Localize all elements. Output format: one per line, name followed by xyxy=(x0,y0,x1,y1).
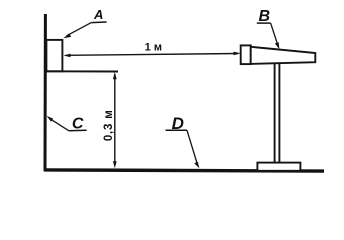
dimension arrow 0.3 m xyxy=(113,72,117,168)
floor (horizontal line D) xyxy=(44,170,324,171)
svg-text:1 м: 1 м xyxy=(145,42,162,54)
label B underline xyxy=(257,22,271,24)
label D leader arrow xyxy=(187,130,199,168)
stand column left line xyxy=(274,63,276,162)
shelf line at bottom of block A xyxy=(46,70,118,72)
stand column right line xyxy=(278,63,280,162)
label B leader arrow xyxy=(271,23,280,49)
label A underline xyxy=(91,21,106,24)
svg-text:A: A xyxy=(93,7,103,22)
dimension arrow 1 m xyxy=(63,52,240,58)
label D underline xyxy=(166,129,188,131)
label C leader arrow xyxy=(47,116,69,131)
bar B end cap xyxy=(241,45,251,64)
block A on wall xyxy=(46,40,62,71)
label A leader arrow xyxy=(63,23,91,39)
svg-text:0,3 м: 0,3 м xyxy=(103,109,115,141)
stand base xyxy=(257,163,300,171)
label C underline xyxy=(69,129,87,132)
wall (vertical line C) xyxy=(44,14,47,171)
svg-text:B: B xyxy=(259,8,271,25)
bar B tapered body xyxy=(251,47,316,64)
